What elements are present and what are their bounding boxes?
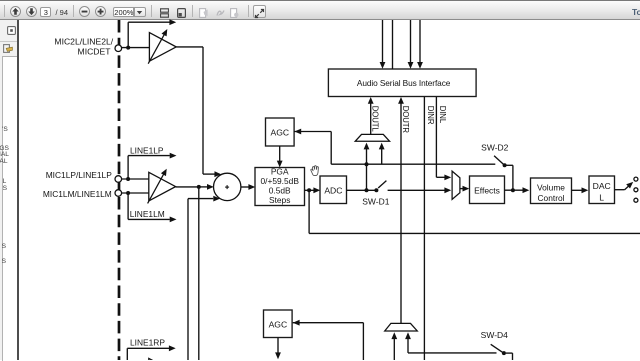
block AGC (right channel): [264, 310, 293, 338]
wire DINL to effects mux: [436, 97, 451, 181]
node LM junction: [126, 191, 130, 195]
bookmarks panel: [2, 56, 18, 361]
block Effects: [470, 176, 505, 204]
wire Effects output to Volume Control: [505, 187, 530, 193]
svg-text:MIC1LM/LINE1LM: MIC1LM/LINE1LM: [43, 189, 112, 199]
wire I2S line 2: [392, 20, 394, 69]
block Volume Control: [531, 178, 572, 204]
svg-text:LINE1LM: LINE1LM: [130, 209, 165, 219]
terminal MIC1LP/LINE1LP: [46, 170, 122, 182]
wire PGA to ADC: [305, 187, 321, 193]
net label DINR: [426, 106, 435, 125]
bookmark label fragment IAL: [0, 151, 9, 158]
label LINE1LP tap with arrow: [128, 146, 176, 179]
bookmark label fragment S: [0, 258, 6, 265]
node J5 (loopback bus junction): [365, 162, 369, 166]
svg-text:MIC2L/LINE2L/: MIC2L/LINE2L/: [54, 37, 113, 47]
svg-text:PGA: PGA: [271, 167, 289, 177]
net label DINL: [438, 106, 447, 124]
wire mux M1 right input arrow: [379, 143, 385, 165]
wire AGC input tap: [294, 129, 331, 165]
mux M3 (DOUTR select): [385, 323, 418, 331]
page count label: [56, 8, 69, 17]
label LINE1RP tap with arrow: [127, 337, 175, 360]
icon bookmarks (active): [3, 44, 13, 53]
mux M1 (DOUTL select): [355, 134, 389, 141]
toolbar separator: [4, 5, 5, 17]
icon comment (disabled): [230, 8, 239, 18]
wire MIC2L terminal to amp A1: [122, 47, 150, 49]
sidebar separator: [0, 41, 17, 42]
svg-text:0/+59.5dB: 0/+59.5dB: [260, 176, 299, 186]
svg-text:0.5dB: 0.5dB: [269, 186, 291, 196]
wire J2 down to right channel: [198, 187, 200, 360]
wire SW-D1 to effects mux: [388, 187, 452, 193]
svg-text:L: L: [599, 192, 604, 202]
svg-text:SW-D2: SW-D2: [481, 142, 509, 152]
button next page: [26, 6, 37, 17]
switch SW-D1: [362, 181, 390, 207]
bookmark label fragment L: [0, 178, 6, 185]
bookmark label fragment 'S: [0, 126, 8, 133]
wire mux M1 left input arrow: [364, 143, 370, 165]
op-amp A1 (MIC2L input amp): [148, 29, 176, 64]
wire LP terminal to amp A2: [122, 178, 149, 180]
icon scrolling mode: [160, 8, 169, 18]
wire AGC to PGA arrow: [277, 146, 283, 167]
svg-text:SW-D1: SW-D1: [362, 196, 390, 206]
net label DOUTL: [370, 106, 379, 133]
icon export (disabled): [199, 8, 208, 18]
svg-text:DAC: DAC: [593, 181, 611, 191]
bookmark label fragment AL: [0, 158, 8, 165]
svg-text:DINR: DINR: [426, 106, 435, 125]
svg-text:LINE1RP: LINE1RP: [130, 337, 165, 347]
block PGA: [255, 167, 305, 206]
node J2 (A2 output junction): [197, 185, 201, 189]
svg-text:Volume: Volume: [537, 183, 565, 193]
wire DOUTL with up arrow: [368, 97, 374, 134]
block AGC (left channel): [266, 118, 295, 146]
wire A2 output to summing node: [176, 184, 214, 190]
svg-text:AGC: AGC: [270, 127, 289, 137]
wire DINR: [423, 97, 425, 360]
toolbar separator: [192, 5, 193, 17]
wire I2S line 1 with down arrow: [380, 20, 386, 69]
svg-text:Control: Control: [538, 193, 565, 203]
wire SW-D4 output down: [506, 353, 513, 360]
svg-text:MIC1LP/LINE1LP: MIC1LP/LINE1LP: [46, 170, 113, 180]
svg-text:DINL: DINL: [438, 106, 447, 124]
switch SW-D2: [481, 142, 509, 167]
wire summing node to PGA: [241, 184, 255, 190]
label LINE1LM tap with arrow: [128, 193, 176, 222]
svg-text:DOUTL: DOUTL: [370, 106, 379, 133]
wire mux M2 output to Effects: [460, 186, 469, 192]
PDF viewer toolbar: [0, 0, 640, 20]
wire I2S line 3 with down arrow: [408, 20, 414, 69]
bookmark label fragment S: [0, 243, 6, 250]
bookmark label fragment S: [0, 185, 7, 192]
bookmark label fragment IGS: [0, 145, 9, 152]
zoom level combo box: [113, 7, 134, 18]
toolbar separator: [151, 5, 152, 17]
svg-text:Steps: Steps: [269, 195, 290, 205]
node J4 (ADC output junction): [365, 188, 369, 192]
wire LM terminal to amp A2: [122, 192, 149, 194]
node LP junction: [126, 177, 130, 181]
button previous page: [10, 6, 21, 17]
terminal MIC2L/LINE2L/MICDET: [54, 37, 121, 57]
node J1 (MIC2L junction): [126, 46, 130, 50]
block DAC L: [589, 176, 615, 204]
block Audio Serial Bus Interface: [328, 69, 476, 97]
wire A1 output to summing node: [176, 47, 221, 177]
button zoom out: [79, 6, 90, 17]
wire mux M3 right input: [405, 332, 496, 353]
label Tools: [632, 7, 640, 17]
wire cross input from below into summing node: [188, 196, 220, 360]
op-amp A3 (right channel, cut off at page bottom): [149, 358, 176, 361]
icon page thumbnails: [7, 26, 16, 35]
wire AGC2 down arrow: [275, 338, 281, 360]
mux M2 (DAC path select): [452, 171, 460, 199]
wire SW-D2 bypass to effects output: [507, 165, 513, 190]
svg-text:MICDET: MICDET: [78, 46, 112, 56]
op-amp A2 (MIC1L input amp): [148, 169, 176, 204]
summing junction S1: [214, 173, 241, 200]
svg-text:Audio Serial Bus Interface: Audio Serial Bus Interface: [357, 78, 451, 88]
node J6 (effects output junction): [511, 188, 515, 192]
wire mux M3 left input: [391, 332, 397, 360]
wire MICDET up with arrow: [128, 19, 176, 47]
wire AGC2 input tap: [293, 320, 364, 360]
switch SW-D4: [481, 330, 509, 355]
wire PGA output down to bottom bus: [309, 190, 640, 233]
page number box: [40, 7, 51, 18]
toolbar separator: [73, 5, 74, 17]
wire DOUTR with up arrow: [398, 97, 404, 323]
sidebar/page divider: [17, 20, 20, 360]
svg-text:ADC: ADC: [324, 185, 342, 195]
button reading mode: [253, 5, 266, 18]
toolbar separator: [248, 5, 249, 17]
chip boundary dashed line: [118, 20, 121, 360]
wire Volume Control to DAC: [572, 187, 589, 193]
switch DAC L output selector: [615, 177, 638, 202]
wire I2S line 4 with down arrow: [417, 20, 423, 69]
wire ADC output: [347, 189, 375, 191]
svg-text:DOUTR: DOUTR: [401, 106, 410, 134]
svg-text:LINE1LP: LINE1LP: [130, 146, 164, 156]
button zoom in: [95, 6, 106, 17]
wire J4 up to loopback bus: [366, 164, 368, 190]
terminal MIC1LM/LINE1LM: [43, 189, 122, 199]
node J3 (PGA output junction): [307, 188, 311, 192]
svg-text:SW-D4: SW-D4: [481, 330, 509, 340]
navigation sidebar: [0, 20, 17, 360]
icon fit page: [177, 8, 186, 18]
net label DOUTR: [401, 106, 410, 134]
icon sign (disabled): [216, 8, 225, 17]
hand cursor icon: [311, 166, 319, 176]
wire loopback bus: [331, 163, 495, 165]
svg-text:AGC: AGC: [269, 319, 288, 329]
svg-text:Effects: Effects: [474, 185, 500, 195]
block ADC: [320, 176, 347, 204]
